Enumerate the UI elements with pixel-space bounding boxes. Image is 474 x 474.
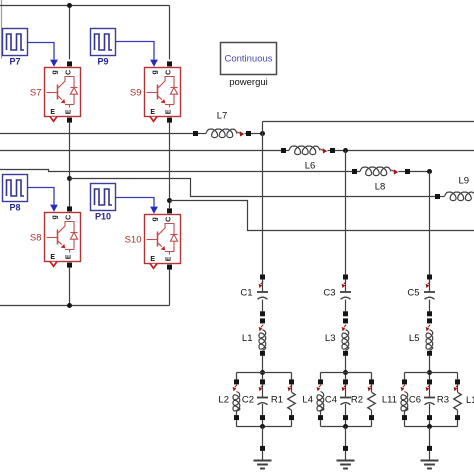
svg-text:C: C [165,217,172,222]
wire: midpoint node to L9 [70,179,438,197]
junction: bottom of parallel group at x=345.5 [343,424,348,429]
IGBT S8 [30,206,81,267]
resistor R1 [271,373,295,427]
svg-text:E: E [165,109,172,114]
pulse generator P7 [3,29,28,67]
pulse generator P8 [3,175,28,213]
svg-text:C4: C4 [325,395,337,406]
svg-text:g: g [152,217,159,221]
wire: bus to L7 [0,133,193,135]
wire: parallel group top rail [405,372,458,374]
wire: S7 emitter to S8 collector [69,123,71,207]
capacitor C3 [323,275,351,317]
svg-text:powergui: powergui [229,77,268,88]
svg-text:S9: S9 [130,88,142,99]
svg-text:E: E [50,109,55,116]
junction: bottom of parallel group at x=262.5 [260,424,265,429]
powergui block [221,43,277,89]
wire: P7 output to S7 gate [28,43,58,67]
IGBT S9 [130,61,181,122]
wire: parallel group bottom rail [405,426,458,428]
capacitor C5 [407,275,435,317]
wire: bus to L6 [0,150,281,152]
junction: bottom of parallel group at x=429.5 [427,424,432,429]
inductor L11 [382,373,408,427]
svg-text:E: E [165,256,172,261]
inductor L5 [409,318,433,355]
svg-text:P8: P8 [9,203,20,213]
svg-text:g: g [152,70,159,74]
svg-text:S10: S10 [125,235,142,246]
wire: L3 to parallel group [345,356,347,373]
IGBT S10 [125,208,181,269]
svg-text:L11: L11 [382,395,397,406]
svg-text:Continuous: Continuous [224,54,272,65]
svg-text:L3: L3 [325,333,336,344]
junction: S9-S10 midpoint node [167,198,172,203]
junction: node A (L7 / branch 1 riser) [260,131,265,136]
svg-text:C: C [165,70,172,75]
svg-text:E: E [150,109,155,116]
wire: bus to L8 [0,170,352,172]
junction: bottom bus / S8 emitter [67,303,72,308]
inductor L2 [218,373,239,427]
svg-text:S8: S8 [30,233,42,244]
label L12 (clipped at edge) [466,395,474,406]
wire: L1 to parallel group [262,356,264,373]
inductor L1 [242,318,266,355]
svg-text:C6: C6 [409,395,421,406]
svg-text:L9: L9 [459,176,470,187]
inductor L9 [435,176,474,201]
wire: parallel group top rail [321,372,372,374]
junction: top of parallel group at x=345.5 [343,370,348,375]
ground [337,446,355,469]
svg-text:L1: L1 [242,333,253,344]
svg-text:g: g [52,215,59,219]
svg-text:L7: L7 [217,111,228,122]
svg-text:E: E [50,254,55,261]
svg-text:C5: C5 [407,287,419,298]
resistor R3 [437,373,461,427]
svg-text:R3: R3 [437,395,449,406]
svg-text:E: E [65,254,72,259]
wire: group to ground [345,427,347,447]
junction: top of parallel group at x=429.5 [427,370,432,375]
svg-text:L6: L6 [305,161,316,172]
junction: node C (L8 / branch 3 riser) [427,169,432,174]
svg-text:R2: R2 [351,395,363,406]
pulse generator P9 [91,29,116,67]
svg-text:R1: R1 [271,395,283,406]
svg-text:C3: C3 [323,287,335,298]
wire: top DC bus [0,6,170,60]
inductor L6 [281,146,335,171]
svg-text:L2: L2 [218,395,229,406]
svg-text:C: C [65,215,72,220]
capacitor C2 [242,375,268,427]
svg-text:C: C [65,70,72,75]
wire: parallel group bottom rail [237,426,292,428]
wire: bottom DC bus (S8/S10 emitters) [0,268,170,306]
inductor L4 [302,373,323,427]
svg-text:L12: L12 [466,395,474,406]
inductor L7 [193,111,251,138]
svg-text:L5: L5 [409,333,420,344]
IGBT S7 [30,61,81,122]
ground [421,446,439,469]
wire: node B riser [345,151,347,275]
wire: S7 collector riser [69,6,71,60]
wire: L8 to node C [410,171,430,173]
wire: P8 output to S8 gate [28,188,58,212]
wire: group to ground [429,427,431,447]
pulse generator P10 [91,184,116,222]
wire: node A riser and top-right bus [263,122,474,275]
wire: parallel group top rail [237,372,292,374]
junction: top of parallel group at x=262.5 [260,370,265,375]
wire: P9 output to S9 gate [116,42,158,67]
svg-text:P9: P9 [97,57,108,67]
svg-text:L8: L8 [375,182,386,193]
svg-text:P7: P7 [9,57,20,67]
ground [254,446,272,469]
capacitor C6 [409,375,435,427]
junction: S7-S8 midpoint node [67,176,72,181]
wire: S9 emitter to S10 collector [169,123,171,209]
svg-text:g: g [52,70,59,74]
svg-text:P10: P10 [95,212,111,222]
svg-text:E: E [150,256,155,263]
wire: S9-S10 node to 4th branch [170,201,474,231]
svg-text:L4: L4 [302,395,313,406]
junction: top bus / S7 riser [67,3,72,8]
wire: P10 output to S10 gate [116,198,158,214]
svg-text:C1: C1 [240,287,252,298]
wire: node C riser [429,172,431,275]
wire: L7 to node A [251,133,263,135]
capacitor C4 [325,375,351,427]
resistor R2 [351,373,375,427]
wire: L5 to parallel group [429,356,431,373]
inductor L8 [352,167,410,192]
wire: L6 to node B and onward [335,150,474,152]
capacitor C1 [240,275,268,317]
inductor L3 [325,318,349,355]
svg-text:C2: C2 [242,395,254,406]
wire: group to ground [262,427,264,447]
svg-text:E: E [65,109,72,114]
svg-text:S7: S7 [30,88,42,99]
wire: parallel group bottom rail [321,426,372,428]
junction: node B (L6 / branch 2 riser) [343,148,348,153]
